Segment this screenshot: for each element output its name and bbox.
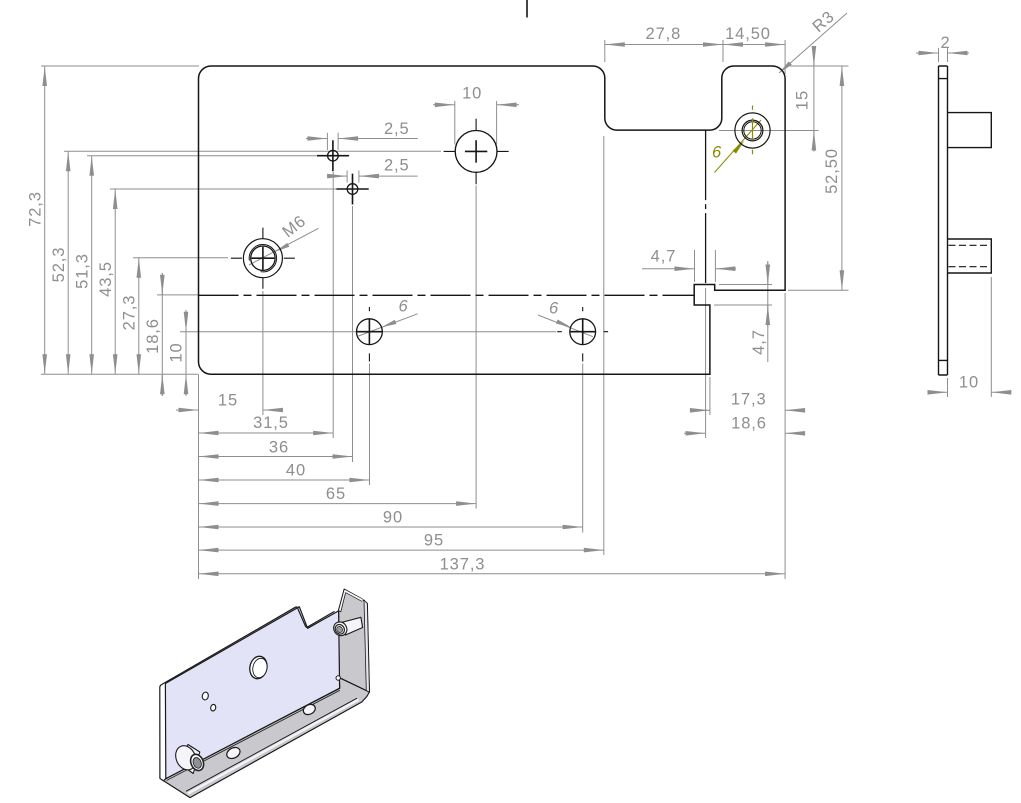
svg-text:52,50: 52,50 bbox=[823, 148, 841, 194]
svg-text:90: 90 bbox=[383, 509, 403, 527]
svg-text:18,6: 18,6 bbox=[731, 415, 767, 433]
svg-text:31,5: 31,5 bbox=[253, 414, 289, 432]
svg-text:51,3: 51,3 bbox=[73, 253, 91, 289]
svg-text:2,5: 2,5 bbox=[384, 157, 410, 175]
svg-text:2,5: 2,5 bbox=[384, 120, 410, 138]
svg-text:18,6: 18,6 bbox=[144, 318, 162, 354]
svg-text:M6: M6 bbox=[279, 212, 310, 241]
svg-text:10: 10 bbox=[168, 342, 186, 362]
svg-text:10: 10 bbox=[959, 374, 979, 392]
svg-text:6: 6 bbox=[549, 300, 559, 318]
svg-text:4,7: 4,7 bbox=[750, 329, 768, 355]
svg-text:52,3: 52,3 bbox=[50, 247, 68, 283]
svg-text:40: 40 bbox=[286, 462, 306, 480]
svg-text:27,8: 27,8 bbox=[646, 25, 682, 43]
svg-text:17,3: 17,3 bbox=[731, 391, 767, 409]
svg-text:36: 36 bbox=[269, 439, 289, 457]
svg-text:2: 2 bbox=[940, 34, 950, 52]
svg-text:6: 6 bbox=[712, 144, 722, 162]
svg-text:27,3: 27,3 bbox=[121, 295, 139, 331]
svg-text:R3: R3 bbox=[809, 7, 838, 36]
svg-text:10: 10 bbox=[462, 85, 482, 103]
svg-text:137,3: 137,3 bbox=[440, 555, 486, 573]
svg-text:15: 15 bbox=[218, 391, 238, 409]
svg-text:14,50: 14,50 bbox=[725, 25, 771, 43]
svg-text:43,5: 43,5 bbox=[97, 261, 115, 297]
svg-text:65: 65 bbox=[326, 485, 346, 503]
svg-text:4,7: 4,7 bbox=[651, 248, 677, 266]
svg-text:95: 95 bbox=[424, 532, 444, 550]
svg-text:72,3: 72,3 bbox=[26, 191, 44, 227]
svg-text:15: 15 bbox=[794, 90, 812, 110]
svg-text:6: 6 bbox=[398, 298, 408, 316]
